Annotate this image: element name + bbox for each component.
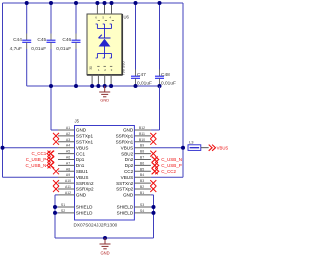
svg-text:C_USB_P: C_USB_P — [161, 163, 182, 168]
wire to pin A4 VBUS — [3, 147, 59, 149]
svg-text:SSTXn2: SSTXn2 — [116, 181, 134, 186]
svg-text:4,7uF: 4,7uF — [10, 46, 22, 52]
pin B7 Dn2 — [134, 159, 151, 161]
junction shield at S1 — [53, 205, 57, 209]
pin B6 Dp2 — [134, 164, 151, 166]
svg-text:B5: B5 — [140, 167, 144, 171]
svg-text:B3: B3 — [140, 179, 144, 183]
U6 internal diode comb top — [96, 24, 98, 29]
svg-text:0,01uF: 0,01uF — [31, 46, 46, 52]
port C_USB_P on pin A6 — [51, 157, 55, 163]
wire L3 to VBUS port — [201, 147, 209, 149]
junction top rail at C48 — [158, 1, 162, 5]
wire to pin A9 VBUS — [3, 176, 59, 178]
pin A8 SBU1 — [58, 170, 75, 172]
svg-text:GND: GND — [123, 128, 134, 133]
svg-text:CC2: CC2 — [124, 169, 134, 174]
svg-text:SSTXn1: SSTXn1 — [76, 140, 94, 145]
svg-text:SHIELD: SHIELD — [76, 211, 93, 216]
U6 zener diode D — [99, 37, 111, 39]
pin A11 SSRXp2 — [58, 188, 75, 190]
svg-text:SSTXp1: SSTXp1 — [76, 134, 94, 139]
svg-text:SSRXp2: SSRXp2 — [76, 187, 94, 192]
svg-text:0,01uF: 0,01uF — [137, 81, 152, 87]
svg-text:SBU1: SBU1 — [76, 169, 88, 174]
wire S3 to shield net — [151, 206, 154, 208]
svg-text:SSRXp1: SSRXp1 — [116, 134, 134, 139]
no-connect X on pin A8 — [53, 168, 59, 174]
junction GND rail at C46 — [74, 84, 78, 88]
svg-text:S4: S4 — [140, 209, 144, 213]
junction shield at S2 — [53, 211, 57, 215]
junctions top rail at U6 pins — [95, 1, 99, 5]
TVS diode array U6 — [87, 14, 122, 75]
svg-text:B8: B8 — [140, 150, 144, 154]
svg-text:B4: B4 — [140, 173, 144, 177]
svg-text:C45: C45 — [37, 37, 46, 43]
pin A2 SSTXp1 — [58, 135, 75, 137]
svg-text:SSRXn1: SSRXn1 — [116, 140, 134, 145]
wire C48 column to pin B12 GND — [159, 86, 161, 130]
svg-text:B2: B2 — [140, 185, 144, 189]
wire junction down to pin B4 — [151, 176, 183, 178]
svg-text:C_USB_N: C_USB_N — [26, 163, 47, 168]
port C_USB_N on pin A7 — [51, 163, 55, 169]
U6 bottom pin 1 — [91, 75, 93, 87]
junction GND rail at C47 — [134, 84, 138, 88]
svg-text:GND: GND — [76, 128, 87, 133]
svg-text:C_CC1: C_CC1 — [32, 151, 47, 156]
pin A9 VBUS — [58, 176, 75, 178]
ground symbol bottom — [104, 238, 106, 244]
no-connect X on pin B2 — [150, 186, 156, 192]
junction shield at S3 — [152, 205, 156, 209]
svg-text:0,01uF: 0,01uF — [56, 46, 71, 52]
junction top rail at C47 — [134, 1, 138, 5]
no-connect X on pin B10 — [150, 139, 156, 145]
svg-text:VBUS: VBUS — [121, 145, 134, 150]
pin A4 VBUS — [58, 147, 75, 149]
junction top rail at C44 — [25, 1, 29, 5]
no-connect X on pin B8 — [150, 151, 156, 157]
wire A12 GND to shield net — [55, 194, 58, 196]
svg-text:SHIELD: SHIELD — [117, 211, 134, 216]
port VBUS — [209, 145, 212, 151]
pin B1 GND — [134, 194, 151, 196]
svg-text:U6: U6 — [124, 15, 130, 20]
svg-text:C47: C47 — [137, 72, 146, 78]
U6 bottom pin 3 — [104, 75, 106, 87]
wire bottom shield rail — [55, 237, 154, 239]
svg-text:B10: B10 — [139, 138, 145, 142]
svg-text:Dn1: Dn1 — [76, 163, 85, 168]
no-connect X on pin B11 — [150, 133, 156, 139]
pin B10 SSRXn1 — [134, 141, 151, 143]
svg-text:SHIELD: SHIELD — [76, 205, 93, 210]
svg-text:S1: S1 — [61, 203, 65, 207]
port C_CC2 on pin B5 — [152, 168, 156, 174]
wire VBUS left border — [2, 3, 4, 177]
svg-text:VBUS: VBUS — [217, 145, 228, 150]
junction shield at S4 — [152, 211, 156, 215]
svg-text:C_USB_P: C_USB_P — [26, 157, 47, 162]
svg-text:SBU2: SBU2 — [121, 151, 133, 156]
svg-text:Dp2: Dp2 — [125, 163, 134, 168]
svg-text:C44: C44 — [13, 37, 22, 43]
ground symbol under U6 — [104, 86, 106, 92]
wire VBUS right border — [182, 3, 184, 177]
svg-text:S2: S2 — [61, 209, 65, 213]
svg-text:C_CC2: C_CC2 — [161, 169, 176, 174]
pin B8 SBU2 — [134, 153, 151, 155]
pin A6 Dp1 — [58, 159, 75, 161]
svg-text:SSTXp2: SSTXp2 — [116, 187, 134, 192]
svg-text:GND: GND — [100, 98, 109, 103]
svg-text:SHIELD: SHIELD — [117, 205, 134, 210]
U6 bottom pin 2 — [97, 75, 99, 87]
port C_USB_N on pin B7 — [152, 157, 156, 163]
svg-text:A3: A3 — [66, 138, 70, 142]
svg-text:B1: B1 — [140, 191, 144, 195]
svg-text:C_USB_N: C_USB_N — [161, 157, 182, 162]
pin B5 CC2 — [134, 170, 151, 172]
svg-text:SSRXn2: SSRXn2 — [76, 181, 94, 186]
svg-text:C46: C46 — [62, 37, 71, 43]
svg-text:A2: A2 — [66, 132, 70, 136]
no-connect X on pin B3 — [150, 180, 156, 186]
pin S3 SHIELD — [134, 206, 151, 208]
wire pin B9 to junction — [151, 147, 183, 149]
svg-text:DX07S024JJ2R1300: DX07S024JJ2R1300 — [74, 223, 118, 228]
svg-text:A12: A12 — [65, 191, 71, 195]
no-connect X on pin A2 — [53, 133, 59, 139]
svg-text:L3: L3 — [189, 140, 194, 145]
svg-text:S3: S3 — [140, 203, 144, 207]
pin A12 GND — [58, 194, 75, 196]
svg-text:A11: A11 — [65, 185, 71, 189]
pin A1 GND — [58, 129, 75, 131]
pin A5 CC1 — [58, 153, 75, 155]
svg-text:A1: A1 — [66, 126, 70, 130]
wire net VBUS top rail — [3, 2, 184, 4]
pin B4 VBUS — [134, 176, 151, 178]
svg-text:GND: GND — [123, 193, 134, 198]
U6 top pin 5 — [104, 3, 106, 14]
pin S1 SHIELD — [58, 206, 75, 208]
svg-text:C48: C48 — [161, 72, 170, 78]
svg-text:30: 30 — [89, 66, 93, 70]
port C_USB_P on pin B6 — [152, 163, 156, 169]
svg-text:A7: A7 — [66, 161, 70, 165]
pin B12 GND — [134, 129, 151, 131]
svg-text:B7: B7 — [140, 156, 144, 160]
ferrite bead L3 — [188, 145, 201, 151]
svg-text:Dp1: Dp1 — [76, 157, 85, 162]
pin B2 SSTXp2 — [134, 188, 151, 190]
svg-text:A4: A4 — [66, 144, 70, 148]
wire S4 to shield net — [151, 212, 154, 214]
svg-text:B11: B11 — [139, 132, 145, 136]
pin S4 SHIELD — [134, 212, 151, 214]
pin A3 SSTXn1 — [58, 141, 75, 143]
junction VBUS at L3 — [181, 146, 185, 150]
junction GND rail at C48 — [158, 84, 162, 88]
port C_CC1 on pin A5 — [51, 151, 55, 157]
pin A7 Dn1 — [58, 164, 75, 166]
U6 internal diode comb bottom — [97, 53, 111, 55]
svg-text:0,01uF: 0,01uF — [161, 81, 176, 87]
junction on left border at A4 — [1, 146, 5, 150]
U6 top pin 4 — [111, 3, 113, 14]
svg-text:Dn2: Dn2 — [125, 157, 134, 162]
junction GND rail at C45 — [49, 84, 53, 88]
wire S1 to shield net — [55, 206, 58, 208]
svg-text:GND: GND — [76, 193, 87, 198]
svg-text:J5: J5 — [75, 119, 80, 124]
junction top rail at C45 — [49, 1, 53, 5]
pin B9 VBUS — [134, 147, 151, 149]
svg-text:A6: A6 — [66, 156, 70, 160]
svg-text:VBUS: VBUS — [76, 145, 89, 150]
svg-text:A5: A5 — [66, 150, 70, 154]
capacitor C47 — [135, 3, 137, 70]
svg-text:A8: A8 — [66, 167, 70, 171]
no-connect X on pin A11 — [53, 186, 59, 192]
U6 bottom pin 4 — [110, 75, 112, 87]
wire A1 GND from C45 column — [51, 129, 58, 131]
capacitor C44 — [26, 3, 28, 34]
pin B3 SSTXn2 — [134, 182, 151, 184]
svg-text:B9: B9 — [140, 144, 144, 148]
USB-C connector J5 — [75, 126, 135, 221]
pin A10 SSRXn2 — [58, 182, 75, 184]
wire B1 GND to shield net — [151, 194, 154, 196]
svg-text:A9: A9 — [66, 173, 70, 177]
no-connect X on pin A10 — [53, 180, 59, 186]
capacitor C48 — [159, 3, 161, 70]
no-connect X on pin A3 — [53, 139, 59, 145]
U6 top pin 6 — [96, 3, 98, 14]
wire S2 to shield net — [55, 212, 58, 214]
junction bottom rail at GND — [103, 236, 107, 240]
svg-text:GND: GND — [100, 251, 109, 255]
svg-text:VBUS: VBUS — [121, 175, 134, 180]
capacitor C46 — [75, 3, 77, 34]
svg-text:CC1: CC1 — [76, 151, 86, 156]
svg-text:B12: B12 — [139, 126, 145, 130]
svg-text:T96 S95: T96 S95 — [122, 61, 126, 75]
capacitor C45 — [50, 3, 52, 34]
svg-text:B6: B6 — [140, 161, 144, 165]
pin S2 SHIELD — [58, 212, 75, 214]
svg-text:A10: A10 — [65, 179, 71, 183]
junction top rail at C46 — [74, 1, 78, 5]
svg-text:VBUS: VBUS — [76, 175, 89, 180]
junctions GND rail at U6 pins — [90, 84, 94, 88]
wire GND rail under U6 — [27, 85, 160, 87]
pin B11 SSRXp1 — [134, 135, 151, 137]
